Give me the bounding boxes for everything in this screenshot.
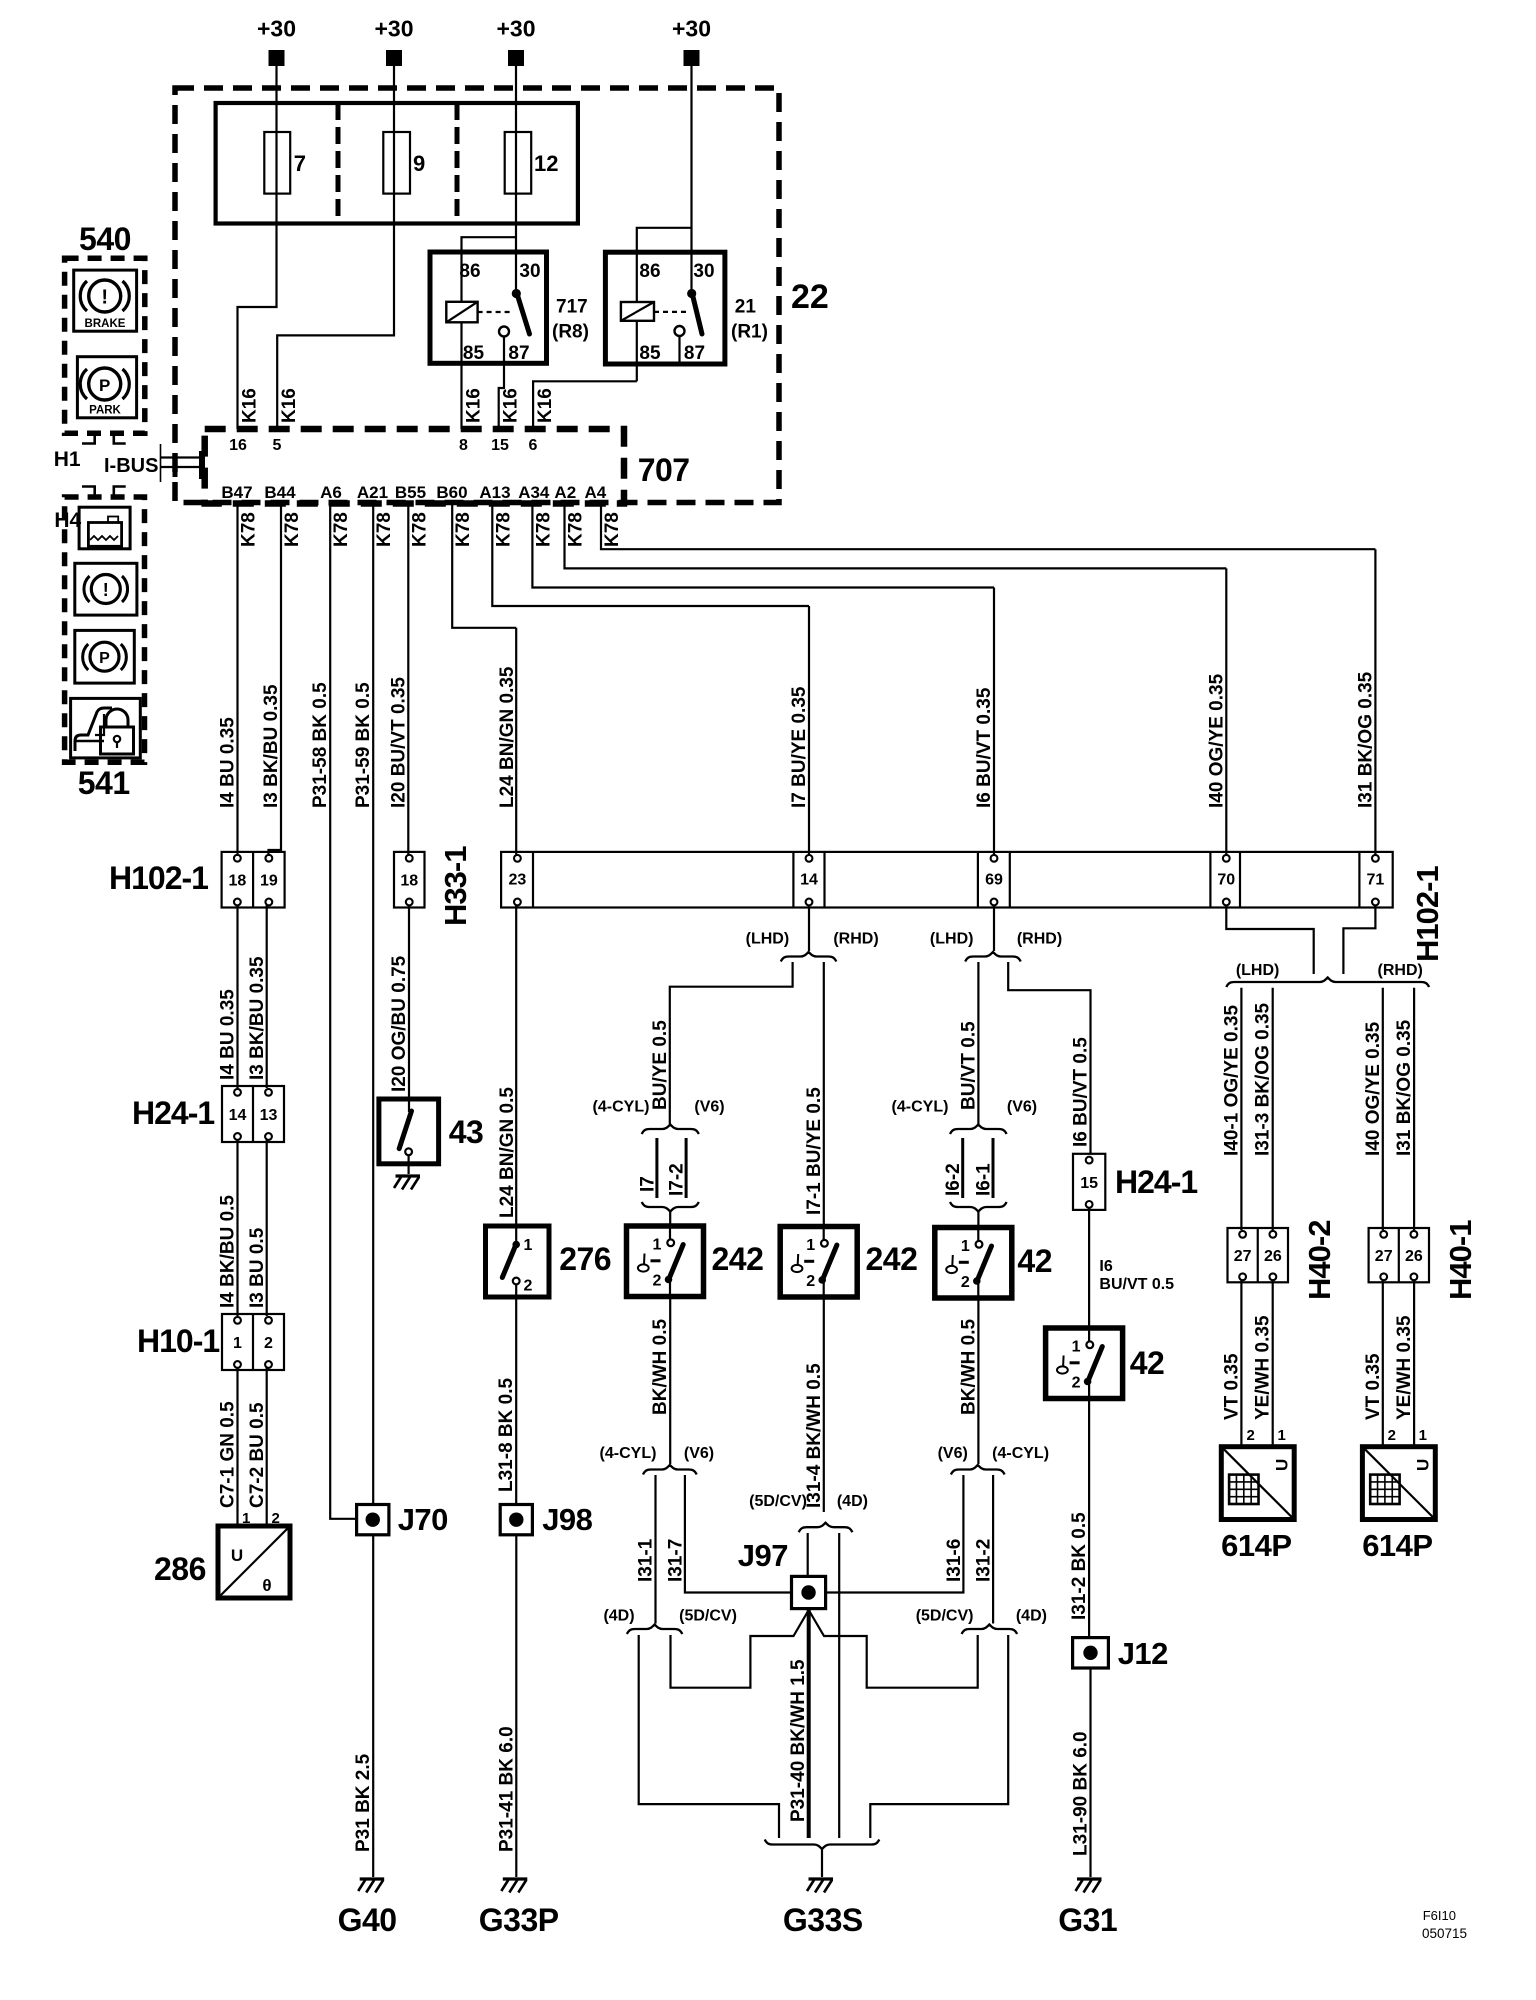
svg-text:2: 2 [806, 1273, 815, 1290]
wire I3 BU 0.5 (to H10-1 2) [266, 1139, 268, 1316]
svg-text:J12: J12 [1118, 1636, 1168, 1671]
svg-text:1: 1 [1278, 1427, 1286, 1444]
svg-text:L31-90 BK 6.0: L31-90 BK 6.0 [1071, 1731, 1092, 1856]
svg-text:(5D/CV): (5D/CV) [749, 1493, 807, 1510]
svg-text:(4-CYL): (4-CYL) [593, 1099, 650, 1116]
svg-text:I31-6: I31-6 [944, 1539, 965, 1582]
svg-text:I31-2 BK 0.5: I31-2 BK 0.5 [1069, 1512, 1090, 1620]
wire B44 (I3 BK/BU 0.35) to H102-1 pin 19 [269, 504, 282, 857]
wire into switch 42a [977, 1212, 979, 1228]
wire B47 (I4 BU 0.35) to H102-1 pin 18 [236, 504, 238, 857]
svg-text:I20 BU/VT 0.35: I20 BU/VT 0.35 [388, 677, 409, 808]
wire 4D right to ground brace [870, 1635, 1008, 1838]
svg-text:(R1): (R1) [731, 322, 768, 343]
svg-text:18: 18 [228, 873, 246, 890]
wire VT 0.35 (H40-1 to 614P) [1382, 1280, 1384, 1447]
svg-text:1: 1 [961, 1238, 970, 1255]
svg-text:K16: K16 [240, 388, 261, 423]
svg-text:A21: A21 [357, 483, 388, 502]
svg-text:6: 6 [529, 437, 538, 454]
svg-text:43: 43 [449, 1114, 484, 1150]
svg-text:K78: K78 [453, 512, 474, 547]
connector pair I7/I7-2 top brace [642, 1125, 699, 1135]
svg-text:I4 BK/BU 0.5: I4 BK/BU 0.5 [218, 1195, 239, 1308]
svg-text:I40 OG/YE 0.35: I40 OG/YE 0.35 [1363, 1021, 1384, 1156]
svg-text:42: 42 [1017, 1243, 1052, 1279]
svg-text:15: 15 [491, 437, 509, 454]
brake warning lamp icon (541) [75, 563, 137, 615]
svg-text:L24 BN/GN 0.5: L24 BN/GN 0.5 [497, 1087, 518, 1218]
svg-text:A2: A2 [554, 483, 576, 502]
ground G33P [503, 1877, 528, 1880]
svg-text:1: 1 [1072, 1339, 1081, 1356]
connector pair I7/I7-2 bottom brace [642, 1202, 699, 1212]
svg-text:9: 9 [413, 151, 425, 176]
wire A2 (I40 OG/YE 0.35) to H102-1 pin 70 [565, 504, 1227, 569]
svg-text:(V6): (V6) [684, 1445, 714, 1462]
connector H10-1 pins 1/2 [222, 1314, 284, 1370]
switch 242b [780, 1227, 857, 1298]
svg-text:G33P: G33P [479, 1902, 559, 1938]
wire I31-2 BK 0.5 (42b to J12) [1088, 1399, 1090, 1638]
541 continuation tab [82, 487, 95, 498]
svg-text:K78: K78 [533, 512, 554, 547]
svg-text:H4: H4 [54, 509, 81, 532]
svg-text:85: 85 [463, 343, 485, 364]
svg-text:U: U [231, 1546, 243, 1565]
svg-text:(4D): (4D) [837, 1493, 868, 1510]
svg-text:(4-CYL): (4-CYL) [992, 1445, 1049, 1462]
wire branch fuse 12 to relay 717 pin 86 [462, 237, 517, 253]
svg-text:BU/VT 0.5: BU/VT 0.5 [958, 1021, 979, 1110]
svg-text:K16: K16 [501, 388, 522, 423]
svg-text:G33S: G33S [783, 1902, 863, 1938]
relay 717 coil [446, 302, 477, 323]
junction J70 [357, 1505, 389, 1535]
svg-text:(5D/CV): (5D/CV) [916, 1608, 974, 1625]
connector half I6-1 [992, 1138, 995, 1198]
svg-text:1: 1 [1419, 1427, 1427, 1444]
svg-text:I6-1: I6-1 [974, 1163, 995, 1196]
svg-text:87: 87 [684, 343, 705, 364]
wire I31-4 BK/WH 0.5 below 242b [823, 1297, 825, 1512]
wire branch +30 to relay 21 pin 86 [637, 228, 692, 253]
svg-text:70: 70 [1217, 872, 1235, 889]
svg-text:A4: A4 [585, 483, 607, 502]
I-BUS connector symbol [160, 444, 162, 482]
svg-text:242: 242 [712, 1241, 764, 1277]
brace split row2 right [962, 1625, 1018, 1635]
junction J97 [792, 1576, 826, 1608]
wire I3 BK/BU 0.35 (19 to H24-1 13) [266, 905, 268, 1088]
svg-text:69: 69 [985, 872, 1003, 889]
svg-text:+30: +30 [257, 16, 296, 42]
wire A4 (I31 BK/OG 0.35) to H102-1 pin 71 [601, 504, 1375, 550]
svg-text:717: 717 [556, 297, 588, 318]
svg-text:7: 7 [294, 151, 306, 176]
connector half I7 [655, 1138, 658, 1198]
svg-text:23: 23 [509, 872, 527, 889]
svg-text:H10-1: H10-1 [137, 1323, 219, 1359]
brace split below 42a [951, 1465, 1005, 1475]
wire pin 70 to brace [1226, 905, 1313, 974]
wire 4D left to ground brace [639, 1635, 779, 1838]
svg-text:(RHD): (RHD) [1378, 962, 1423, 979]
svg-text:K78: K78 [493, 512, 514, 547]
svg-text:H102-1: H102-1 [1410, 866, 1445, 962]
svg-text:13: 13 [260, 1107, 278, 1124]
svg-text:1: 1 [233, 1335, 242, 1352]
relay 21 dashed actuation link [654, 311, 688, 313]
wire relay 21 pin 85 to 707 pin 6 [533, 381, 637, 429]
connector pair I6-2/I6-1 bottom brace [950, 1202, 1007, 1212]
svg-text:(4-CYL): (4-CYL) [600, 1445, 657, 1462]
wire A6 (P31-58 BK 0.5) down to J70 [330, 504, 356, 1519]
svg-text:+30: +30 [374, 16, 413, 42]
relay 717 (R8) box [430, 252, 547, 363]
svg-text:(RHD): (RHD) [833, 931, 878, 948]
wire LHD branch BU/YE 0.5 [670, 962, 793, 1124]
wire I20 OG/BU 0.75 (H33-1 to switch 43) [408, 905, 410, 1099]
svg-text:P31-40 BK/WH 1.5: P31-40 BK/WH 1.5 [788, 1659, 809, 1822]
svg-text:(4D): (4D) [603, 1608, 634, 1625]
svg-text:P31 BK 2.5: P31 BK 2.5 [353, 1753, 374, 1852]
svg-text:I7-2: I7-2 [667, 1163, 688, 1196]
svg-text:71: 71 [1367, 872, 1385, 889]
wire I31-6 (V6) into J97 [826, 1475, 964, 1593]
svg-text:(LHD): (LHD) [930, 931, 974, 948]
display unit 614P (RHD) [1362, 1447, 1435, 1520]
svg-text:286: 286 [154, 1551, 206, 1587]
svg-text:(V6): (V6) [938, 1445, 968, 1462]
svg-text:B47: B47 [221, 483, 252, 502]
relay 21 coil [621, 302, 654, 321]
relay 717 contact 87 terminal [499, 327, 509, 337]
wire A21 (P31-59 BK 0.5) down to J70 [372, 504, 374, 1505]
wire YE/WH 0.35 (H40-1 to 614P) [1413, 1280, 1415, 1447]
svg-text:I40 OG/YE 0.35: I40 OG/YE 0.35 [1206, 673, 1227, 808]
svg-text:I7: I7 [637, 1176, 658, 1192]
svg-text:26: 26 [1405, 1248, 1423, 1265]
wire 4D branch of 242b to ground brace [838, 1533, 840, 1838]
svg-text:L31-8 BK 0.5: L31-8 BK 0.5 [496, 1378, 517, 1492]
fuse 9 [383, 132, 410, 194]
svg-text:J97: J97 [738, 1538, 788, 1573]
svg-text:16: 16 [229, 437, 247, 454]
svg-text:276: 276 [559, 1241, 611, 1277]
svg-text:K16: K16 [464, 388, 485, 423]
fuse 7 [264, 132, 290, 194]
switch 43 box [379, 1099, 439, 1164]
svg-text:(4-CYL): (4-CYL) [892, 1099, 949, 1116]
svg-text:K78: K78 [282, 512, 303, 547]
svg-text:YE/WH 0.35: YE/WH 0.35 [1253, 1315, 1274, 1420]
svg-text:14: 14 [229, 1107, 247, 1124]
svg-text:2: 2 [961, 1274, 970, 1291]
svg-text:85: 85 [639, 343, 661, 364]
svg-text:P31-58 BK 0.5: P31-58 BK 0.5 [310, 682, 331, 808]
svg-text:614P: 614P [1221, 1528, 1291, 1563]
connector H24-1 pins 14/13 [222, 1086, 284, 1142]
svg-text:(4D): (4D) [1016, 1608, 1047, 1625]
wire H102-1 pin 14 down to split [808, 905, 810, 951]
svg-text:G31: G31 [1058, 1902, 1117, 1938]
svg-text:H24-1: H24-1 [132, 1095, 214, 1131]
wire L31-8 BK 0.5 (276 to J98) [515, 1297, 517, 1505]
wire C7-1 GN 0.5 (to 286 pin 1) [236, 1367, 238, 1526]
svg-text:26: 26 [1264, 1248, 1282, 1265]
svg-text:30: 30 [693, 261, 714, 282]
svg-text:!: ! [101, 287, 108, 309]
wire I31-7 (V6) into J97 [685, 1475, 792, 1593]
svg-text:VT 0.35: VT 0.35 [1221, 1353, 1242, 1420]
svg-text:I20 OG/BU 0.75: I20 OG/BU 0.75 [389, 955, 410, 1092]
junction J12 [1073, 1638, 1109, 1668]
svg-text:U: U [1413, 1459, 1432, 1471]
switch 242a [627, 1226, 704, 1297]
wire I4 BU 0.35 (18 to H24-1 14) [236, 905, 238, 1088]
svg-text:B60: B60 [436, 483, 467, 502]
svg-text:(RHD): (RHD) [1017, 931, 1062, 948]
connector H102-1 pins 18/19 [222, 852, 285, 908]
wire 5D/CV left into J97 bottom [671, 1610, 809, 1688]
junction J98 [500, 1505, 532, 1535]
svg-text:I3 BU 0.5: I3 BU 0.5 [247, 1227, 268, 1308]
wire 5D/CV right into J97 bottom [809, 1610, 978, 1688]
fuse box divider 2 (dashed) [455, 103, 460, 224]
svg-text:K78: K78 [409, 512, 430, 547]
svg-text:I6 BU/VT 0.35: I6 BU/VT 0.35 [974, 687, 995, 808]
display unit 614P (LHD) [1221, 1447, 1294, 1520]
svg-text:2: 2 [524, 1278, 533, 1295]
wire BK/WH 0.5 below 42a [977, 1298, 979, 1464]
wire relay 717 pin 87 to 707 pin 15 [499, 337, 504, 430]
fuse box divider 1 (dashed) [336, 103, 341, 224]
fuse 12 [505, 132, 532, 194]
svg-text:A13: A13 [479, 483, 510, 502]
svg-text:!: ! [103, 580, 109, 600]
relay 717 coil wire (86-85) [460, 253, 462, 302]
svg-text:B44: B44 [264, 483, 296, 502]
svg-text:H33-1: H33-1 [438, 846, 473, 926]
relay 21 contact 87 terminal [675, 326, 685, 336]
ground G31 [1077, 1877, 1102, 1880]
svg-text:J70: J70 [398, 1502, 448, 1537]
svg-text:(LHD): (LHD) [746, 931, 790, 948]
wire L31-90 BK 6.0 to ground G31 [1089, 1668, 1091, 1877]
wire fuse 9 output to 707 pin 5 [277, 132, 394, 429]
svg-text:I31-4 BK/WH 0.5: I31-4 BK/WH 0.5 [804, 1363, 825, 1508]
svg-text:I6 BU/VT 0.5: I6 BU/VT 0.5 [1071, 1037, 1092, 1147]
sensor 286 (temperature sender) [218, 1526, 290, 1598]
svg-text:86: 86 [639, 261, 660, 282]
svg-text:I7-1 BU/YE 0.5: I7-1 BU/YE 0.5 [804, 1087, 825, 1215]
wire +30 no.3 into fuse 12 [515, 65, 517, 132]
wire A13 (I7 BU/YE 0.35) to H102-1 pin 14 [492, 504, 809, 607]
svg-text:541: 541 [78, 765, 130, 801]
svg-text:242: 242 [866, 1241, 918, 1277]
svg-text:I31-7: I31-7 [665, 1539, 686, 1582]
wire I31-2 (4-CYL) [992, 1475, 994, 1624]
svg-text:27: 27 [1375, 1248, 1393, 1265]
ground stub G33S [821, 1849, 823, 1877]
relay 717 switch contact 30 [512, 289, 521, 298]
svg-text:19: 19 [260, 873, 278, 890]
svg-text:42: 42 [1130, 1345, 1165, 1381]
svg-text:(5D/CV): (5D/CV) [679, 1608, 737, 1625]
svg-text:I3 BK/BU 0.35: I3 BK/BU 0.35 [261, 684, 282, 808]
brace split at pin 69 [965, 952, 1021, 962]
svg-text:K78: K78 [374, 512, 395, 547]
wire RHD branch to H24-1 pin 15 [1008, 962, 1090, 1154]
svg-text:BU/YE 0.5: BU/YE 0.5 [650, 1020, 671, 1110]
svg-text:H1: H1 [54, 448, 81, 471]
wire H102-1 pin 69 down to split [993, 905, 995, 951]
svg-text:614P: 614P [1362, 1528, 1432, 1563]
connector H40-2 pins 27/26 [1228, 1228, 1289, 1282]
svg-text:I31-1: I31-1 [636, 1538, 657, 1582]
svg-text:+30: +30 [496, 16, 535, 42]
switch 42b [1046, 1328, 1123, 1399]
brace split at pin 14 [781, 952, 837, 962]
svg-text:B55: B55 [395, 483, 426, 502]
svg-text:K78: K78 [602, 512, 623, 547]
svg-text:I-BUS: I-BUS [104, 455, 158, 477]
wire fuse 12 output to relay 717 pin 30 [515, 132, 517, 289]
wire I40 OG/YE 0.35 [1382, 988, 1384, 1230]
svg-text:H24-1: H24-1 [1115, 1164, 1197, 1200]
wire I4 BK/BU 0.5 (to H10-1 1) [236, 1139, 238, 1316]
relay 21 switch contact 30 [687, 289, 696, 298]
wire A34 (I6 BU/VT 0.35) to H102-1 pin 69 [532, 504, 994, 588]
svg-text:I40-1 OG/YE 0.35: I40-1 OG/YE 0.35 [1221, 1005, 1242, 1156]
connector H40-1 pins 27/26 [1369, 1228, 1429, 1282]
svg-text:707: 707 [638, 452, 690, 488]
svg-text:K16: K16 [279, 388, 300, 423]
svg-text:I6: I6 [1099, 1258, 1112, 1275]
door lock lamp icon (541) [71, 698, 141, 758]
wire +30 no.1 into fuse 7 [275, 65, 277, 132]
540 continuation tab [82, 433, 95, 443]
svg-text:J98: J98 [542, 1502, 592, 1537]
switch 42a [935, 1228, 1012, 1299]
svg-text:H40-2: H40-2 [1302, 1221, 1337, 1300]
wire I6 BU/VT 0.5 (H24-1 to 42b) [1088, 1207, 1090, 1328]
svg-text:18: 18 [400, 873, 418, 890]
svg-text:30: 30 [519, 261, 540, 282]
svg-text:I31 BK/OG 0.35: I31 BK/OG 0.35 [1394, 1019, 1415, 1156]
connector half I6-2 [961, 1138, 964, 1198]
wire +30 no.2 into fuse 9 [393, 65, 395, 132]
svg-text:BU/VT 0.5: BU/VT 0.5 [1099, 1276, 1174, 1293]
brake warning lamp icon (540) [74, 270, 137, 331]
wire into switch 242a [669, 1212, 671, 1227]
wire LHD branch BU/VT 0.5 [977, 962, 979, 1124]
svg-text:I31-2: I31-2 [974, 1539, 995, 1582]
svg-text:I4 BU 0.35: I4 BU 0.35 [218, 989, 239, 1080]
svg-text:2: 2 [1072, 1375, 1081, 1392]
svg-text:2: 2 [653, 1273, 662, 1290]
distribution brace for H40 wires [1226, 978, 1429, 988]
svg-text:12: 12 [534, 151, 558, 176]
wire +30 no.4 down to relay 21 pin 30 [690, 65, 692, 289]
svg-text:87: 87 [508, 343, 529, 364]
wire I31-3 BK/OG 0.35 [1272, 988, 1274, 1230]
park brake lamp icon (540) [77, 357, 136, 418]
ground G40 [360, 1877, 385, 1880]
svg-text:I31 BK/OG 0.35: I31 BK/OG 0.35 [1355, 671, 1376, 808]
ground G33S [809, 1877, 834, 1880]
wire I40-1 OG/YE 0.35 [1240, 988, 1242, 1230]
svg-text:2: 2 [1388, 1427, 1396, 1444]
svg-text:BK/WH 0.5: BK/WH 0.5 [650, 1319, 671, 1416]
wire YE/WH 0.35 (H40-2 to 614P) [1272, 1280, 1274, 1447]
svg-text:YE/WH 0.35: YE/WH 0.35 [1394, 1315, 1415, 1420]
instrument cluster 540 dashed box [65, 258, 145, 433]
svg-text:1: 1 [806, 1237, 815, 1254]
wire P31-41 BK 6.0 to ground G33P [515, 1535, 517, 1877]
svg-text:5: 5 [273, 437, 282, 454]
control module 707 dashed box [205, 429, 624, 504]
park brake lamp icon (541) [75, 630, 135, 683]
svg-text:A34: A34 [518, 483, 550, 502]
svg-text:θ: θ [262, 1576, 271, 1595]
wire L24 BN/GN 0.5 (23 to switch 276) [515, 905, 517, 1226]
wire P31 BK 2.5 to ground G40 [372, 1535, 374, 1877]
svg-text:G40: G40 [338, 1902, 397, 1938]
wire pin 71 to brace [1343, 905, 1375, 974]
wire I31 BK/OG 0.35 [1413, 988, 1415, 1230]
wire VT 0.35 (H40-2 to 614P) [1240, 1280, 1242, 1447]
svg-text:C7-1 GN 0.5: C7-1 GN 0.5 [218, 1401, 239, 1508]
svg-text:540: 540 [79, 221, 131, 257]
svg-text:+30: +30 [672, 16, 711, 42]
connector pair I6-2/I6-1 top brace [950, 1125, 1007, 1135]
svg-text:P31-59 BK 0.5: P31-59 BK 0.5 [353, 682, 374, 808]
svg-text:BK/WH 0.5: BK/WH 0.5 [958, 1319, 979, 1416]
svg-text:1: 1 [653, 1237, 662, 1254]
svg-text:I3 BK/BU 0.35: I3 BK/BU 0.35 [247, 956, 268, 1080]
svg-text:PARK: PARK [89, 405, 121, 417]
connector half I7-2 [685, 1138, 688, 1198]
svg-text:I6-2: I6-2 [943, 1163, 964, 1196]
brace split below 242a [643, 1465, 697, 1475]
svg-text:27: 27 [1234, 1248, 1252, 1265]
wire BK/WH 0.5 below 242a [669, 1297, 671, 1464]
svg-text:K16: K16 [535, 388, 556, 423]
svg-text:K78: K78 [239, 512, 260, 547]
svg-text:U: U [1272, 1459, 1291, 1471]
svg-text:A6: A6 [320, 483, 342, 502]
wire B60 (L24 BN/GN 0.35) to H102-1 pin 23 [452, 504, 516, 628]
svg-text:L24 BN/GN 0.35: L24 BN/GN 0.35 [497, 666, 518, 808]
svg-text:F6I10: F6I10 [1423, 1908, 1456, 1923]
wire C7-2 BU 0.5 (to 286 pin 2) [266, 1367, 268, 1526]
svg-text:14: 14 [800, 872, 818, 889]
svg-text:8: 8 [459, 437, 468, 454]
connector H102-1 long block (pins 23,14,69,70,71) [501, 852, 1393, 908]
instrument cluster 541 dashed box [65, 497, 145, 762]
svg-text:I7 BU/YE 0.35: I7 BU/YE 0.35 [789, 686, 810, 808]
connector H24-1 pin 15 [1073, 1154, 1105, 1210]
wire I31-1 (4-CYL) [654, 1475, 656, 1624]
fluid level lamp icon (541) [79, 507, 130, 549]
relay 21 (R1) box [605, 252, 725, 364]
svg-text:(LHD): (LHD) [1236, 962, 1280, 979]
svg-text:C7-2 BU 0.5: C7-2 BU 0.5 [247, 1402, 268, 1508]
svg-text:15: 15 [1080, 1175, 1098, 1192]
dashed enclosure box 22 (fuse/relay centre) [175, 88, 779, 503]
